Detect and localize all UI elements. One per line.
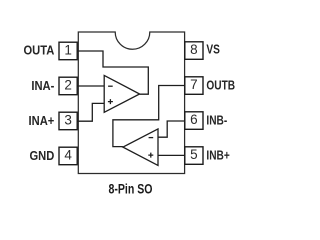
op-amp B inverting input '-' mark — [149, 137, 154, 139]
svg-text:VS: VS — [206, 42, 220, 56]
pin 6 box — [185, 112, 203, 130]
pin label INB- — [206, 113, 227, 127]
svg-text:6: 6 — [190, 112, 198, 127]
wire pin2 INA- to op-amp A inverting input — [77, 85, 104, 87]
svg-text:GND: GND — [29, 148, 54, 163]
svg-text:2: 2 — [64, 78, 72, 93]
svg-text:3: 3 — [64, 113, 72, 128]
pin label OUTA — [23, 43, 54, 58]
pin label INA- — [31, 78, 54, 93]
wire pin6 INB- to op-amp B inverting input — [158, 121, 186, 137]
svg-text:INB+: INB+ — [206, 148, 230, 162]
pin 5 box — [185, 147, 203, 165]
svg-text:5: 5 — [190, 147, 198, 162]
wire pin7 OUTB to op-amp B output — [113, 86, 186, 147]
op-amp B noninverting input '+' mark — [148, 153, 153, 158]
pin 8 box — [185, 42, 203, 60]
svg-text:8-Pin SO: 8-Pin SO — [108, 181, 152, 197]
svg-text:OUTB: OUTB — [206, 78, 235, 92]
caption 8-Pin SO — [108, 181, 152, 197]
pin 4 box — [59, 147, 77, 165]
svg-text:1: 1 — [64, 43, 72, 58]
wire pin3 INA+ to op-amp A noninverting input — [77, 103, 104, 121]
pin 2 box — [59, 77, 77, 95]
op-amp A inverting input '-' mark — [108, 85, 113, 87]
svg-text:INA-: INA- — [31, 78, 54, 93]
svg-text:8: 8 — [190, 42, 198, 57]
pin label INA+ — [29, 113, 55, 128]
pin 7 box — [185, 77, 203, 95]
svg-text:INA+: INA+ — [29, 113, 55, 128]
pin label INB+ — [206, 148, 230, 162]
svg-text:7: 7 — [190, 77, 198, 92]
op-amp U1B triangle — [123, 129, 158, 166]
pin label GND — [29, 148, 54, 163]
svg-text:OUTA: OUTA — [23, 43, 54, 58]
svg-text:4: 4 — [64, 148, 72, 163]
wire pin5 INB+ to op-amp B noninverting input — [158, 154, 186, 156]
op-amp U1A triangle — [104, 75, 139, 112]
pin 3 box — [59, 112, 77, 130]
pin 1 box — [59, 42, 77, 60]
IC body U1 (8-pin SO package outline with top notch) — [78, 32, 184, 174]
wire pin1 OUTA to op-amp A output — [77, 51, 148, 94]
svg-text:INB-: INB- — [206, 113, 227, 127]
op-amp A noninverting input '+' mark — [108, 99, 113, 104]
pin label VS — [206, 42, 220, 56]
pin label OUTB — [206, 78, 235, 92]
